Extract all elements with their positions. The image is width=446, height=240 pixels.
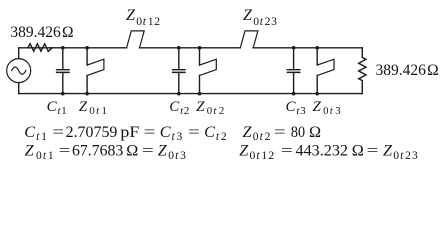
resistor RL 389.426ohm (shunt, right) [359,57,366,80]
svg-text:Z0t2: Z0t2 [196,99,225,117]
capacitor Ct3 top lead [293,48,295,69]
wire top rail [19,47,363,49]
node Z0t3 bottom [315,92,319,96]
node Z0t2 top [198,46,202,50]
capacitor Ct2 plates [173,70,185,73]
wire source bottom lead [18,83,20,94]
svg-text:Z0t1=67.7683Ω=Z0t3: Z0t1=67.7683Ω=Z0t3 [25,142,187,162]
AC source sine wave [12,67,26,74]
svg-text:389.426 Ω: 389.426 Ω [376,62,439,79]
node Z0t2 bottom [198,92,202,96]
stub Z0t2 wire [199,48,201,94]
svg-text:389.426 Ω: 389.426 Ω [10,24,73,41]
stub Z0t3 jog [317,59,334,75]
capacitor Ct2 top lead [178,48,180,69]
svg-text:Ct1=2.70759pF=Ct3=Ct2: Ct1=2.70759pF=Ct3=Ct2 [24,123,228,143]
series stub Z0t12 jog [127,31,145,48]
capacitor Ct3 bottom lead [293,73,295,94]
capacitor Ct1 top lead [62,48,64,69]
svg-text:Ct3: Ct3 [286,99,306,117]
series stub Z0t23 jog [240,31,258,48]
capacitor Ct3 plates [287,70,299,73]
svg-text:Z0t3: Z0t3 [313,99,342,117]
node Ct3 bottom [292,92,296,96]
svg-text:Z0t12: Z0t12 [126,7,161,28]
resistor Rs 389.426ohm (series, top left) [28,44,52,52]
node Ct2 top [177,46,181,50]
svg-text:Z0t23: Z0t23 [243,7,278,28]
wire source top lead [18,48,20,59]
svg-text:Ct1: Ct1 [47,99,67,117]
AC source V1 [7,59,31,83]
capacitor Ct1 bottom lead [62,73,64,94]
node Z0t1 bottom [85,92,89,96]
wire right rail top segment [361,48,363,58]
svg-text:Z0t2=80Ω: Z0t2=80Ω [243,123,322,143]
svg-text:Ct2: Ct2 [169,99,189,117]
wire bottom rail [19,93,363,95]
svg-text:Z0t12=443.232Ω=Z0t23: Z0t12=443.232Ω=Z0t23 [239,142,419,162]
capacitor Ct1 plates [57,70,69,73]
stub Z0t1 jog [87,59,104,75]
stub Z0t1 wire [86,48,88,94]
node Z0t1 top [85,46,89,50]
node Ct3 top [292,46,296,50]
node Z0t3 top [315,46,319,50]
node Ct1 top [61,46,65,50]
stub Z0t3 wire [316,48,318,94]
svg-text:Z0t1: Z0t1 [79,99,108,117]
node Ct1 bottom [61,92,65,96]
capacitor Ct2 bottom lead [178,73,180,94]
wire right rail bottom segment [361,81,363,94]
stub Z0t2 jog [200,59,217,75]
node Ct2 bottom [177,92,181,96]
